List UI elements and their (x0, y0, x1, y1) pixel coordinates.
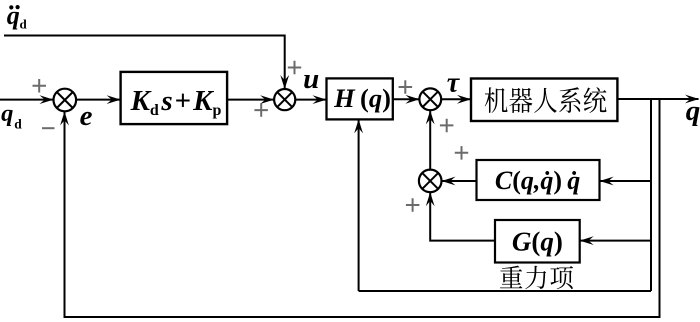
block C(q,qdot)qdot box (477, 160, 600, 200)
arrowhead into block C right side (600, 177, 614, 186)
svg-text:H (q): H (q) (333, 83, 391, 113)
arrowhead into robot block (457, 95, 471, 104)
arrowhead up into block H(q) bottom (354, 119, 363, 133)
wire junction S1 to block Kd s+Kp (76, 99, 120, 101)
wire inner feedback up into H(q) (358, 120, 360, 291)
plus sign at S4 left (406, 198, 420, 212)
plus sign at S2 left (254, 103, 268, 117)
svg-text:G(q): G(q) (512, 227, 563, 257)
robot system block box (471, 79, 617, 122)
block label Kd s + Kp (130, 85, 222, 119)
wire input qd to junction S1 (0, 99, 53, 101)
robot system block label (Chinese) (485, 87, 607, 113)
summing junction S3 (419, 88, 441, 110)
label qd (desired position) (1, 100, 22, 131)
block G(q) box (495, 220, 580, 263)
svg-text:q: q (1, 100, 13, 127)
arrowhead up into junction S4 from G (426, 192, 435, 206)
svg-text:u: u (303, 63, 319, 95)
arrowhead into junction S1 (40, 95, 54, 104)
wire block C to junction S4 (442, 180, 477, 182)
svg-text:q: q (686, 95, 700, 127)
wire qdd feedforward top line (4, 36, 285, 89)
arrowhead up into junction S1 (feedback) (60, 112, 69, 126)
wire inner feedback bottom run (359, 290, 651, 292)
plus sign at S2 top (288, 61, 301, 74)
gravity term label (Chinese) (500, 266, 573, 290)
wire block G to junction S4 (430, 193, 495, 241)
svg-text:d: d (20, 16, 28, 31)
plus sign at S3 bottom (440, 119, 454, 133)
arrowhead into junction S4 from C (442, 177, 456, 186)
svg-text:Kds+Kp: Kds+Kp (130, 85, 222, 119)
summing junction S1 (54, 89, 77, 112)
wire tap to block G (581, 240, 652, 242)
summing junction S4 (419, 170, 442, 193)
arrowhead into junction S2 (260, 95, 274, 104)
block label C(q,qdot)qdot (495, 166, 580, 195)
plus sign at S3 left (399, 80, 413, 94)
arrowhead into block Kd s+Kp (107, 95, 121, 104)
wire inner feedback vertical from output (650, 99, 652, 291)
svg-text:e: e (80, 100, 93, 132)
block Kd s + Kp box (121, 72, 228, 124)
arrowhead output q (685, 95, 699, 104)
wire robot block output to q (617, 98, 698, 100)
wire block H(q) to junction S3 (393, 98, 419, 100)
minus sign at S1 (42, 127, 55, 129)
plus sign at S1 (33, 79, 47, 93)
arrowhead into block H(q) (313, 95, 327, 104)
plus sign at S4 top (455, 146, 468, 160)
arrowhead into junction S3 (405, 95, 419, 104)
arrowhead down into junction S2 (qdd) (280, 75, 289, 89)
wire junction S3 to robot block (441, 98, 470, 100)
label qdd (desired acceleration) (7, 1, 28, 31)
arrowhead up into junction S3 from S4 (426, 110, 435, 124)
svg-text:C(q,q̇) q̇: C(q,q̇) q̇ (495, 166, 580, 195)
wire outer feedback right vertical and bottom run to S1 (65, 99, 660, 317)
svg-text:d: d (14, 117, 22, 132)
block H(q) box (327, 78, 393, 119)
summing junction S2 (274, 89, 295, 110)
wire junction S4 to junction S3 (429, 111, 431, 170)
arrowhead into block G right side (580, 236, 594, 245)
wire junction S2 to block H(q) (295, 99, 326, 101)
wire block Kd s+Kp to junction S2 (227, 99, 273, 101)
svg-text:τ: τ (447, 68, 461, 99)
wire tap to block C (601, 180, 652, 182)
